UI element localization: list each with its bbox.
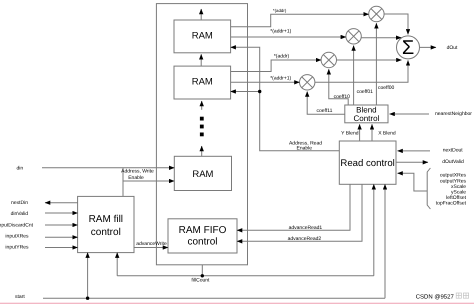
wire fillCount horizontal [117, 275, 374, 277]
svg-text:nextDin: nextDin [11, 200, 28, 206]
junction dot fillCount [201, 274, 204, 277]
wire RAM U1 out addr+1 to M2 [231, 36, 346, 38]
svg-text:Control: Control [354, 114, 380, 123]
wire coeff00 [375, 23, 377, 105]
dotted continuation squares [200, 117, 204, 137]
svg-text:Enable: Enable [128, 175, 144, 181]
label Blend Control [354, 105, 380, 123]
wire start line [43, 297, 385, 299]
label RAM FIFO control [179, 225, 227, 247]
svg-text:nextDout: nextDout [443, 148, 464, 154]
wire inputYRes input [45, 247, 78, 249]
label Address Read Enable [289, 140, 322, 151]
bottom pink bar [0, 301, 474, 304]
svg-text:start: start [15, 294, 25, 300]
svg-text:dinValid: dinValid [11, 211, 29, 217]
wire inputDiscardCnt input [45, 224, 78, 226]
svg-text:Y Blend: Y Blend [341, 130, 359, 136]
wire din input [42, 167, 174, 169]
wire fillCount tap from container bottom [201, 265, 203, 276]
svg-text:RAM: RAM [192, 169, 213, 180]
svg-text:topFracOffset: topFracOffset [436, 201, 467, 207]
RAM block U3 (bottom) [174, 156, 231, 190]
wire advanceRead2 [237, 184, 362, 241]
svg-text:*(addr): *(addr) [273, 8, 287, 13]
svg-text:*(addr+1): *(addr+1) [270, 75, 291, 81]
wire enable into RAM U3 [123, 180, 174, 182]
summer sigma circle [397, 36, 420, 59]
dotted continuation arrow upper [201, 101, 203, 110]
wire M4 to sigma [315, 60, 408, 82]
wire advanceRead1 [237, 184, 350, 230]
outer container box [156, 4, 247, 265]
svg-text:Read control: Read control [340, 158, 394, 169]
RAM FIFO control block [168, 219, 237, 253]
svg-text:RAM fill: RAM fill [89, 214, 123, 225]
svg-text:control: control [91, 227, 121, 238]
svg-text:advanceWrite: advanceWrite [136, 241, 167, 247]
junction dot start [86, 297, 89, 300]
multiplier M4 circle [300, 75, 315, 90]
dotted continuation arrow lower [201, 146, 203, 156]
multiplier M3 circle [321, 52, 336, 67]
Blend Control block [345, 105, 388, 123]
wire arrow out of top of RAM U1 [200, 9, 202, 20]
svg-text:dOut: dOut [447, 45, 458, 51]
RAM block U2 (middle) [174, 66, 231, 99]
wire advanceWrite [134, 247, 168, 249]
wire dinValid input [45, 212, 78, 214]
svg-text:Address, Write: Address, Write [121, 169, 154, 175]
svg-text:X Blend: X Blend [378, 130, 396, 136]
RAM fill control block [78, 196, 134, 252]
multiplier M2 circle [346, 29, 361, 44]
svg-text:coeff10: coeff10 [334, 94, 351, 100]
wire address read enable from Read control [231, 47, 340, 151]
svg-text:fillCount: fillCount [191, 277, 210, 283]
wire dOut output [420, 46, 437, 48]
wire RAM U2 out addr to M3 [231, 60, 322, 72]
wire X Blend [371, 124, 373, 141]
svg-text:Σ: Σ [402, 37, 414, 59]
wire nextDin output [45, 202, 78, 204]
svg-text:RAM: RAM [192, 77, 213, 88]
wire RAM U1 out addr to M1 [231, 14, 369, 27]
label Address Write Enable [121, 169, 154, 181]
Read control block [339, 141, 396, 184]
wire start up to Read control [384, 184, 386, 298]
svg-text:coeff00: coeff00 [378, 85, 395, 91]
wire din branch Address Write Enable vertical [122, 168, 124, 197]
svg-text:CSDN @9527: CSDN @9527 [416, 293, 455, 300]
wire nearestNeighbor input [390, 113, 430, 115]
wire M3 to sigma [337, 59, 402, 61]
wire M1 to sigma [384, 14, 408, 34]
svg-text:nearestNeighbor: nearestNeighbor [435, 111, 472, 117]
wire M2 to sigma [361, 37, 401, 39]
svg-text:din: din [17, 166, 24, 172]
wire coeff11 [307, 92, 345, 115]
svg-text:advanceRead2: advanceRead2 [288, 236, 322, 242]
svg-text:RAM: RAM [192, 30, 213, 41]
svg-text:control: control [187, 236, 217, 247]
svg-text:inputYRes: inputYRes [5, 245, 29, 251]
wire dOutValid output [396, 161, 428, 163]
svg-text:Enable: Enable [297, 145, 313, 151]
wire nextDout input [398, 150, 431, 152]
wire coeff01 [353, 46, 355, 106]
svg-text:*(addr): *(addr) [274, 54, 290, 60]
svg-text:advanceRead1: advanceRead1 [289, 225, 323, 231]
svg-text:dOutValid: dOutValid [442, 159, 464, 165]
junction dot read enable [258, 90, 261, 93]
wire arrow RAM U2 to RAM U1 [200, 54, 202, 66]
label RAM fill control [89, 214, 123, 238]
wire inputXRes input [45, 236, 78, 238]
wire parameter bundle into Read control [398, 173, 428, 191]
RAM block U1 (top) [174, 20, 231, 53]
svg-text:RAM FIFO: RAM FIFO [179, 225, 227, 236]
wire RAM U2 out addr+1 to M4 [231, 81, 300, 83]
watermark CSDN [416, 293, 469, 300]
wire fillCount up to RAM fill control [116, 253, 118, 276]
wire coeff10 [329, 69, 348, 105]
bracket for parameter bundle [427, 168, 430, 209]
svg-text:inputXRes: inputXRes [5, 233, 29, 239]
wire Y Blend [359, 124, 361, 141]
svg-text:*(addr+1): *(addr+1) [270, 29, 291, 35]
wire read enable branch to RAM U2 [231, 91, 260, 93]
svg-text:coeff01: coeff01 [357, 89, 374, 95]
svg-text:inputDiscardCnt: inputDiscardCnt [0, 222, 34, 228]
wire fillCount up to Read control [373, 184, 375, 275]
multiplier M1 circle [369, 6, 384, 21]
wire start up to RAM fill control [87, 253, 89, 299]
svg-text:coeff11: coeff11 [317, 108, 333, 114]
svg-text:Blend: Blend [356, 105, 376, 114]
